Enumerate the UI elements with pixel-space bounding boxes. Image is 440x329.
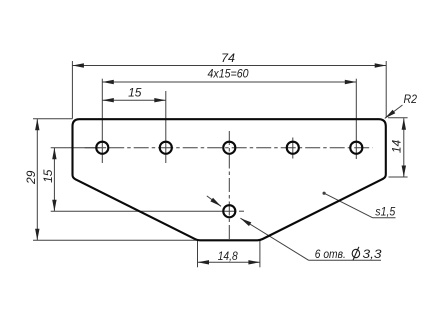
svg-text:29: 29: [24, 170, 38, 185]
svg-text:3,3: 3,3: [363, 247, 382, 261]
svg-text:R2: R2: [404, 92, 418, 106]
svg-text:6 отв.: 6 отв.: [315, 247, 346, 261]
svg-text:s1,5: s1,5: [375, 205, 395, 219]
svg-text:15: 15: [128, 86, 142, 100]
svg-text:15: 15: [41, 169, 55, 183]
svg-text:14,8: 14,8: [218, 249, 238, 263]
svg-text:4x15=60: 4x15=60: [208, 67, 249, 81]
svg-text:74: 74: [221, 51, 235, 65]
svg-text:14: 14: [389, 140, 403, 154]
